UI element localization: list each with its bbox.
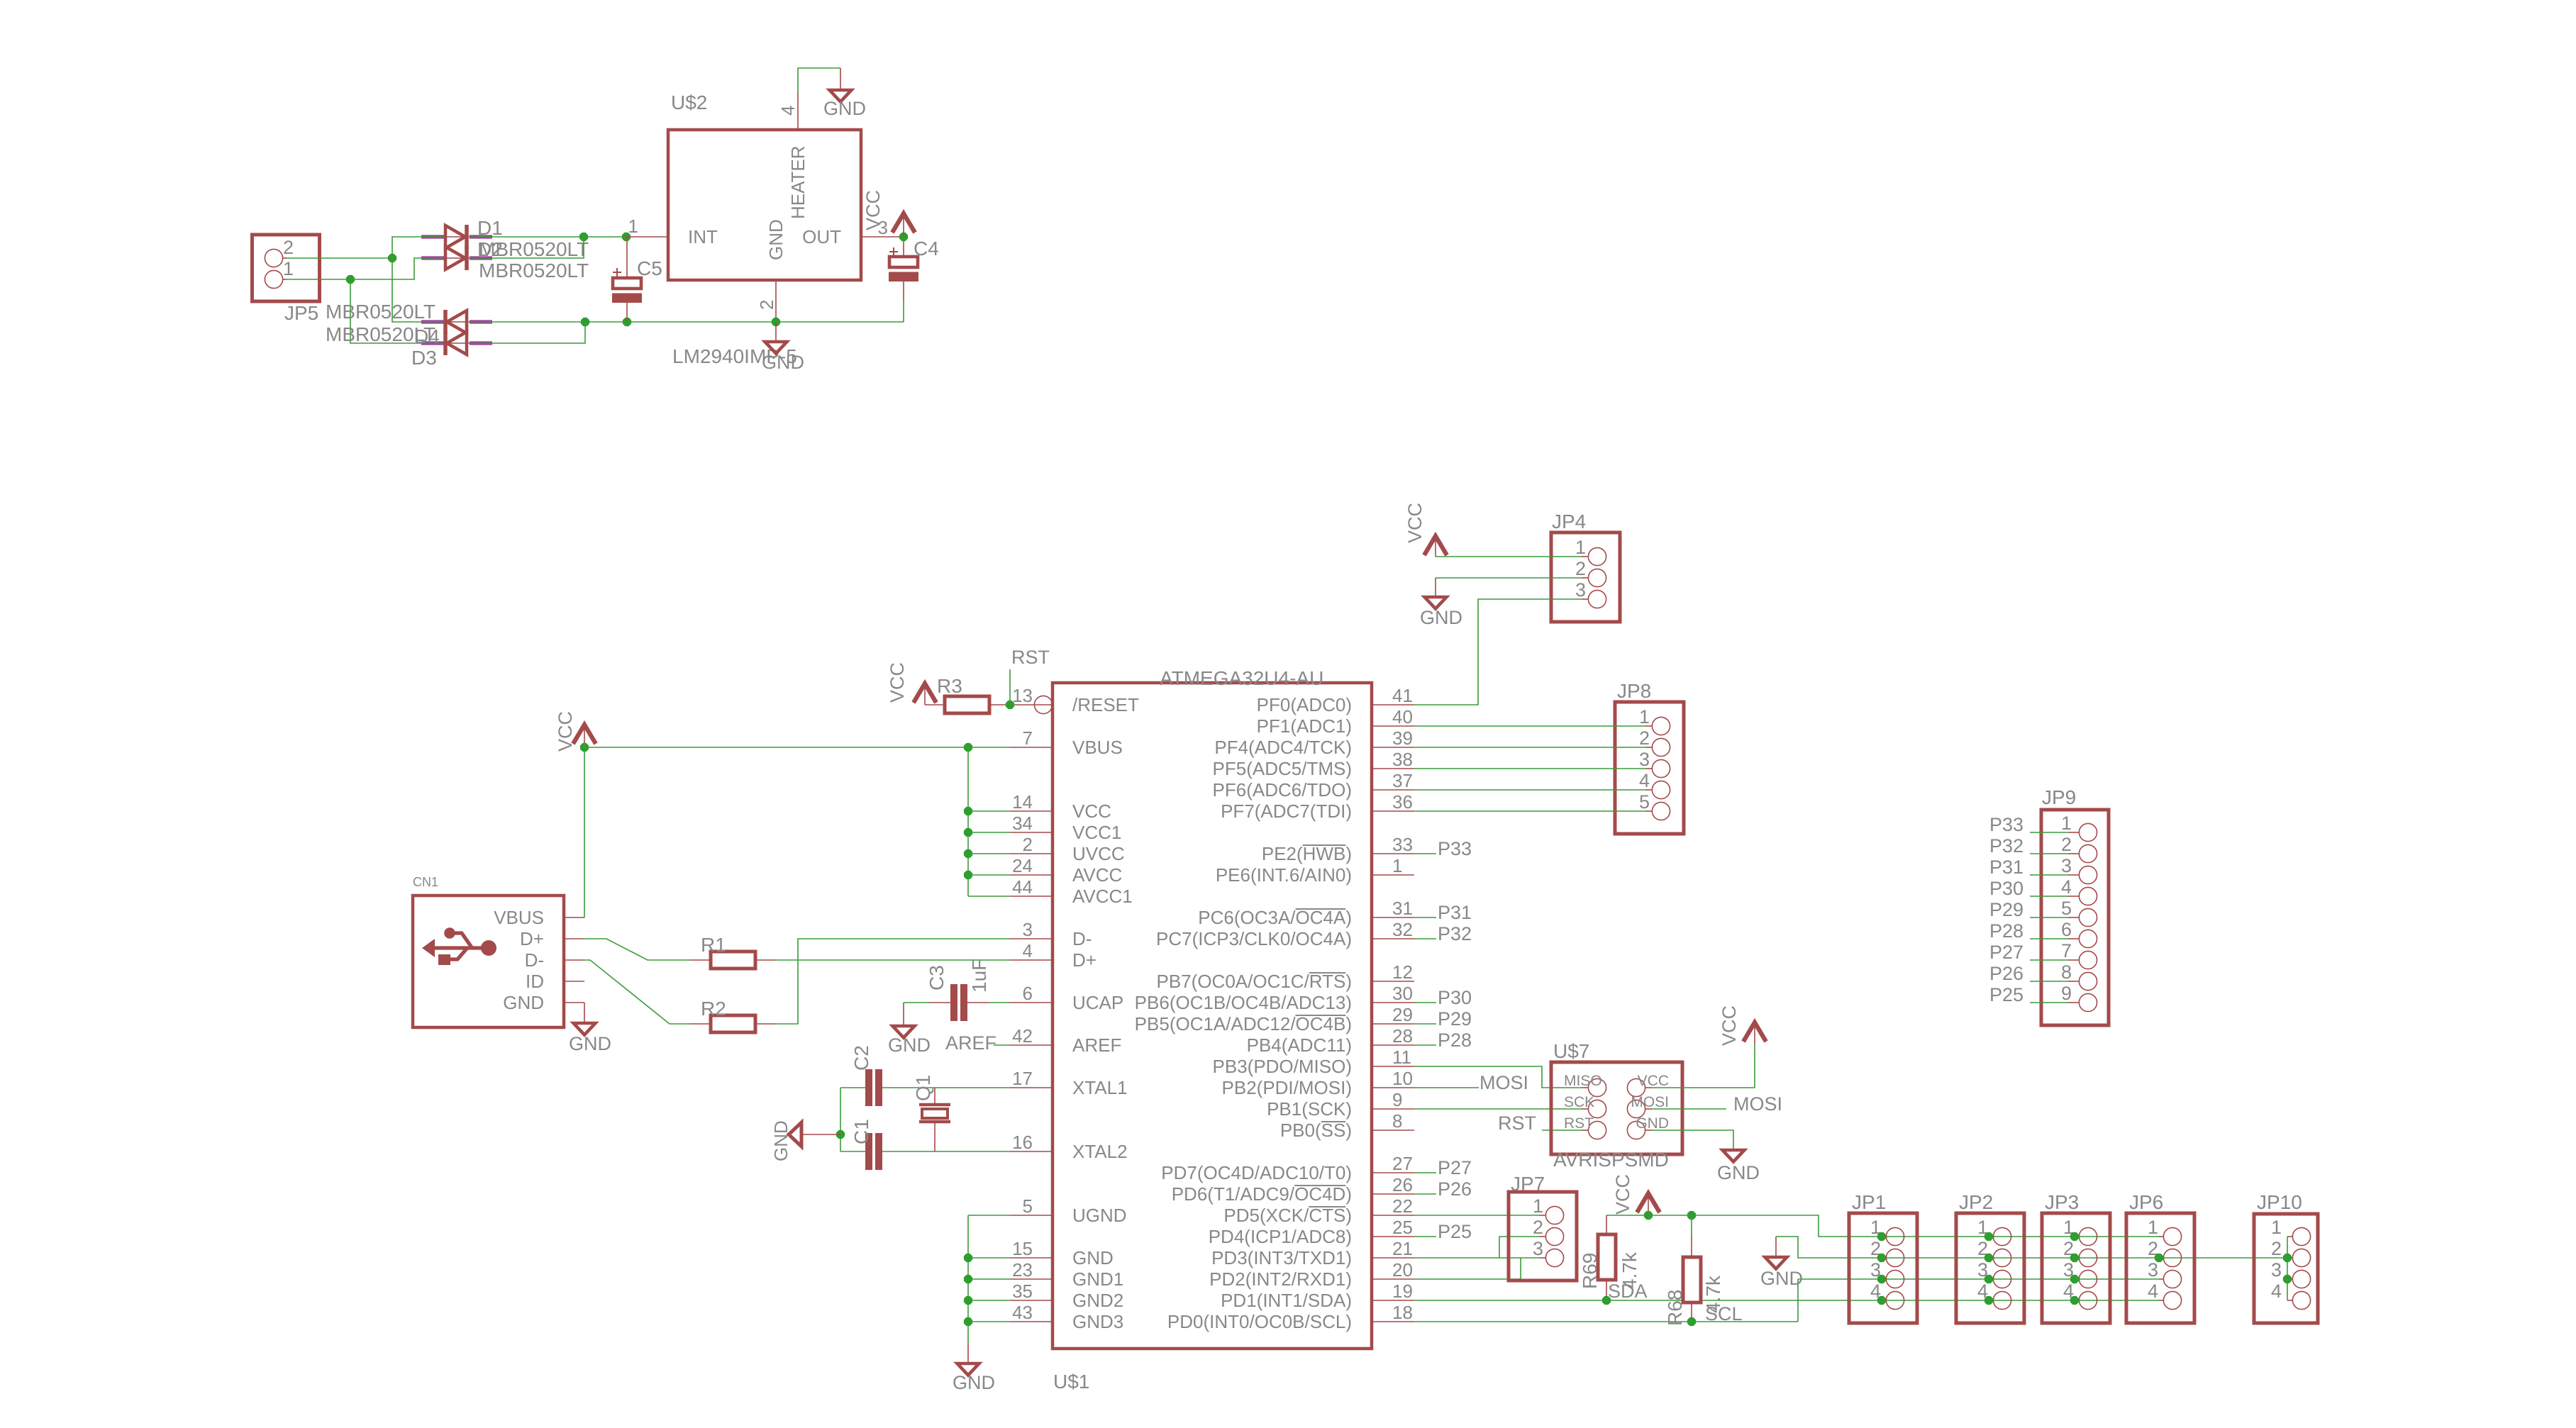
svg-text:AVCC: AVCC <box>1072 864 1122 886</box>
svg-text:GND: GND <box>1420 607 1462 628</box>
svg-text:VCC: VCC <box>1638 1073 1669 1089</box>
svg-text:4: 4 <box>1023 940 1033 961</box>
svg-text:VCC: VCC <box>862 190 884 230</box>
svg-text:XTAL1: XTAL1 <box>1072 1077 1128 1098</box>
net stub P33 <box>1414 853 1436 854</box>
wire P29 to JP9 <box>2030 917 2068 918</box>
svg-text:6: 6 <box>1023 983 1033 1004</box>
crystal Q1 <box>934 1088 936 1105</box>
svg-text:UCAP: UCAP <box>1072 992 1123 1013</box>
svg-text:36: 36 <box>1392 791 1413 813</box>
wire CN1 GND down <box>584 1003 585 1023</box>
wire D- to R2 <box>584 960 690 1024</box>
svg-text:P28: P28 <box>1438 1030 1472 1051</box>
node dot JP10.3 <box>2283 1275 2292 1283</box>
svg-text:PD7(OC4D/ADC10/T0): PD7(OC4D/ADC10/T0) <box>1161 1162 1352 1183</box>
svg-text:MISO: MISO <box>1564 1073 1602 1089</box>
svg-text:MBR0520LT: MBR0520LT <box>326 301 435 323</box>
resistor R2 <box>690 1023 711 1025</box>
wire VCC bus to pin <box>968 853 1010 854</box>
svg-text:U$7: U$7 <box>1553 1040 1589 1062</box>
svg-text:1: 1 <box>2271 1217 2282 1238</box>
svg-text:JP8: JP8 <box>1617 680 1651 702</box>
U$7 pin VCC <box>1627 1078 1645 1096</box>
svg-text:17: 17 <box>1012 1068 1033 1089</box>
svg-text:MOSI: MOSI <box>1631 1094 1669 1110</box>
svg-text:3: 3 <box>1533 1238 1543 1259</box>
wire JP7.2 jog <box>1499 1237 1539 1258</box>
svg-text:9: 9 <box>1392 1089 1402 1110</box>
svg-text:3: 3 <box>1023 919 1033 940</box>
U$1 pin 17 XTAL1 <box>1010 1087 1053 1088</box>
svg-text:UVCC: UVCC <box>1072 843 1125 864</box>
net label MOSI (U$7 right) <box>1652 1108 1726 1110</box>
U$1 pin 16 XTAL2 <box>1010 1151 1053 1152</box>
wire MISO route <box>1414 1066 1582 1088</box>
svg-text:C4: C4 <box>914 238 939 260</box>
svg-text:MBR0520LT: MBR0520LT <box>479 238 589 260</box>
U$1 pin 35 GND2 <box>1010 1300 1053 1301</box>
svg-text:27: 27 <box>1392 1153 1413 1174</box>
svg-text:SCL: SCL <box>1705 1303 1743 1324</box>
wire junction to D2 anode <box>350 258 444 279</box>
node junction JP5.2 <box>388 254 396 262</box>
svg-text:D+: D+ <box>1072 949 1097 971</box>
svg-text:40: 40 <box>1392 706 1413 727</box>
svg-text:GND: GND <box>569 1033 611 1054</box>
svg-text:32: 32 <box>1392 919 1413 940</box>
net stub P28 <box>1414 1044 1436 1046</box>
net stub P30 <box>1414 1002 1436 1003</box>
node dot JP10.2 <box>2283 1254 2292 1262</box>
svg-text:41: 41 <box>1392 685 1413 706</box>
svg-text:PB0(SS): PB0(SS) <box>1280 1120 1352 1141</box>
U$1 pin 26 PD6(T1/ADC9/OC4D) <box>1372 1193 1414 1195</box>
svg-text:RST: RST <box>1498 1112 1536 1134</box>
node dot JP3 <box>2070 1254 2079 1262</box>
node dot JP3 <box>2070 1232 2079 1241</box>
svg-text:22: 22 <box>1392 1195 1413 1217</box>
U$1 pin 13 /RESET <box>1035 704 1053 705</box>
svg-text:XTAL2: XTAL2 <box>1072 1141 1128 1162</box>
node dot VCC bus <box>964 871 972 879</box>
U$1 pin 38 PF5(ADC5/TMS) <box>1372 768 1414 769</box>
svg-text:P25: P25 <box>1989 984 2023 1005</box>
svg-text:R69: R69 <box>1579 1253 1601 1289</box>
svg-text:P33: P33 <box>1438 838 1472 859</box>
svg-text:JP5: JP5 <box>284 302 318 324</box>
wire VCC bus to pin <box>968 874 1010 876</box>
svg-text:3: 3 <box>2061 855 2072 876</box>
svg-text:VCC: VCC <box>1404 503 1426 543</box>
C5 plus sign <box>613 272 621 273</box>
wire P33 to JP9 <box>2030 832 2068 833</box>
ground GND at JP rail <box>1775 1237 1777 1257</box>
svg-text:1: 1 <box>2061 813 2072 834</box>
svg-text:PF1(ADC1): PF1(ADC1) <box>1257 715 1352 737</box>
node dot GND bus <box>964 1296 972 1305</box>
svg-text:P29: P29 <box>1438 1008 1472 1030</box>
svg-text:P30: P30 <box>1989 878 2023 899</box>
wire C3 to IC pin6 <box>989 1002 1010 1003</box>
U$1 pin 30 PB6(OC1B/OC4B/ADC13) <box>1372 1002 1414 1003</box>
svg-text:JP10: JP10 <box>2257 1191 2302 1213</box>
U$1 pin 22 PD5(XCK/CTS) <box>1372 1215 1414 1216</box>
node dot VCC sym <box>1644 1211 1653 1220</box>
svg-text:/RESET: /RESET <box>1072 694 1139 715</box>
U$1 pin 23 GND1 <box>1010 1278 1053 1280</box>
capacitor C4 (polarized) <box>903 237 904 257</box>
net label MOSI (pin10) <box>1414 1087 1479 1088</box>
power VCC at R3 <box>914 684 936 703</box>
node dot R68-SCL <box>1687 1317 1696 1326</box>
wire U$7 GND <box>1652 1130 1733 1150</box>
svg-text:PD5(XCK/CTS): PD5(XCK/CTS) <box>1223 1205 1352 1226</box>
svg-text:5: 5 <box>1639 791 1650 813</box>
svg-text:P27: P27 <box>1438 1157 1472 1178</box>
wire JP10 vertical <box>2287 1237 2288 1300</box>
U$1 pin 7 VBUS <box>1010 747 1053 748</box>
wire IC to JP8 pin 5 <box>1414 810 1645 812</box>
U$1 pin 11 PB3(PDO/MISO) <box>1372 1066 1414 1067</box>
node dot U$2 pin3 <box>899 233 908 241</box>
svg-text:VCC: VCC <box>1072 801 1111 822</box>
overline RTS <box>1309 972 1346 974</box>
power VCC right of U$7 <box>1743 1022 1766 1042</box>
svg-text:19: 19 <box>1392 1281 1413 1302</box>
wire VCC rail <box>1606 1215 2159 1237</box>
svg-text:1: 1 <box>1533 1195 1543 1217</box>
wire P31 to JP9 <box>2030 874 2068 876</box>
svg-text:GND: GND <box>953 1372 995 1393</box>
wire IC to JP8 pin 3 <box>1414 768 1645 769</box>
wire U$2 pin2 down <box>775 322 777 342</box>
connector JP1 <box>1849 1213 1917 1323</box>
wire GND rail <box>1776 1237 2287 1258</box>
U$1 pin 27 PD7(OC4D/ADC10/T0) <box>1372 1172 1414 1173</box>
node dot GND bus <box>964 1254 972 1262</box>
connector JP6 <box>2126 1213 2194 1323</box>
node dot JP3 <box>2070 1275 2079 1283</box>
wire IC to JP8 pin 2 <box>1414 747 1645 748</box>
wire junction up to D1 anode <box>392 237 444 258</box>
wire JP5.2 to junction <box>287 257 392 259</box>
svg-text:1: 1 <box>2148 1217 2158 1238</box>
svg-text:P28: P28 <box>1989 920 2023 942</box>
node dot JP6 <box>2155 1254 2163 1262</box>
connector JP2 <box>1956 1213 2024 1323</box>
svg-text:JP3: JP3 <box>2045 1191 2079 1213</box>
connector JP7 <box>1509 1192 1577 1281</box>
svg-text:JP1: JP1 <box>1852 1191 1886 1213</box>
wire C1C2 left vertical <box>840 1088 841 1151</box>
inversion circle at /RESET <box>1034 696 1052 713</box>
capacitor C3 <box>950 984 957 1021</box>
svg-text:R3: R3 <box>937 675 962 697</box>
overline OC4A <box>1296 908 1346 910</box>
svg-text:1uF: 1uF <box>968 959 990 993</box>
svg-text:38: 38 <box>1392 749 1413 770</box>
connector JP8 <box>1615 702 1684 834</box>
net stub P26 <box>1414 1193 1436 1195</box>
svg-text:D+: D+ <box>520 928 544 949</box>
svg-text:PF6(ADC6/TDO): PF6(ADC6/TDO) <box>1213 779 1352 801</box>
wire GND rail lower <box>492 321 904 323</box>
net stub P32 <box>1414 938 1436 939</box>
svg-text:39: 39 <box>1392 727 1413 749</box>
svg-text:VBUS: VBUS <box>1072 737 1123 758</box>
U$1 pin 3 D- <box>1010 938 1053 939</box>
wire P27 to JP9 <box>2030 959 2068 961</box>
svg-text:PF4(ADC4/TCK): PF4(ADC4/TCK) <box>1214 737 1352 758</box>
svg-text:12: 12 <box>1392 961 1413 983</box>
wire JP5.1 to junction <box>287 279 350 280</box>
svg-text:2: 2 <box>1533 1217 1543 1238</box>
U$1 pin 34 VCC1 <box>1010 832 1053 833</box>
wire UCAP to C3 <box>904 1002 929 1003</box>
U$1 pin 4 D+ <box>1010 959 1053 961</box>
svg-text:D-: D- <box>525 949 544 971</box>
U$1 pin 41 PF0(ADC0) <box>1372 704 1414 705</box>
svg-text:7: 7 <box>1023 727 1033 749</box>
overline OC4D <box>1294 1185 1345 1186</box>
svg-text:1: 1 <box>283 258 294 279</box>
svg-text:PB6(OC1B/OC4B/ADC13): PB6(OC1B/OC4B/ADC13) <box>1135 992 1352 1013</box>
node dot JP2 <box>1984 1254 1993 1262</box>
svg-text:16: 16 <box>1012 1132 1033 1153</box>
U$1 pin 29 PB5(OC1A/ADC12/OC4B) <box>1372 1023 1414 1025</box>
resistor R3 <box>925 704 945 705</box>
U$1 pin 5 UGND <box>1010 1215 1053 1216</box>
wire JP4.2 to GND <box>1436 577 1582 579</box>
wire P28 to JP9 <box>2030 938 2068 939</box>
U$2 pin 4 stub <box>797 92 799 130</box>
svg-text:30: 30 <box>1392 983 1413 1004</box>
U$1 pin 8 PB0(SS) <box>1372 1129 1414 1131</box>
U$1 pin 2 UVCC <box>1010 853 1053 854</box>
svg-text:VCC: VCC <box>555 711 576 752</box>
U$1 pin 12 PB7(OC0A/OC1C/RTS) <box>1372 981 1414 982</box>
USB icon <box>422 927 496 965</box>
svg-text:3: 3 <box>1639 749 1650 770</box>
svg-text:42: 42 <box>1012 1025 1033 1047</box>
U$1 pin 36 PF7(ADC7(TDI) <box>1372 810 1414 812</box>
node dot at 1365 <box>964 743 972 752</box>
svg-text:PF5(ADC5/TMS): PF5(ADC5/TMS) <box>1213 758 1352 779</box>
svg-text:C2: C2 <box>850 1045 872 1071</box>
node dot JP3 <box>2070 1296 2079 1305</box>
svg-text:GND1: GND1 <box>1072 1268 1123 1290</box>
svg-text:PD6(T1/ADC9/OC4D): PD6(T1/ADC9/OC4D) <box>1172 1183 1352 1205</box>
power VCC at rail <box>1637 1193 1660 1212</box>
U$7 pin SCK <box>1588 1100 1606 1117</box>
connector JP10 <box>2254 1214 2318 1323</box>
U$1 pin 25 PD4(ICP1/ADC8) <box>1372 1236 1414 1237</box>
U$7 pin MOSI <box>1627 1100 1645 1117</box>
ground GND at C3 <box>893 1026 915 1038</box>
svg-text:2: 2 <box>1575 558 1586 579</box>
node dot VCC-VBUS <box>580 743 589 752</box>
ground GND at U$2 pin2 <box>765 342 787 354</box>
svg-text:4: 4 <box>2271 1281 2282 1302</box>
node dot JP1 <box>1877 1296 1886 1305</box>
svg-text:7: 7 <box>2061 940 2072 961</box>
svg-text:GND: GND <box>1760 1268 1803 1289</box>
svg-text:9: 9 <box>2061 983 2072 1004</box>
svg-text:VCC1: VCC1 <box>1072 822 1121 843</box>
node dot GND bus <box>964 1275 972 1283</box>
svg-text:PC7(ICP3/CLK0/OC4A): PC7(ICP3/CLK0/OC4A) <box>1156 928 1352 949</box>
power VCC at U$2 OUT <box>903 213 904 237</box>
svg-text:PD2(INT2/RXD1): PD2(INT2/RXD1) <box>1209 1268 1352 1290</box>
wire IC20 jog <box>1414 1258 1521 1279</box>
ground GND at U$2 pin4 <box>830 90 852 102</box>
U$1 pin 18 PD0(INT0/OC0B/SCL) <box>1372 1321 1414 1322</box>
svg-text:D4: D4 <box>414 325 440 347</box>
svg-text:1: 1 <box>1639 706 1650 727</box>
svg-text:2: 2 <box>1023 834 1033 855</box>
regulator U$2 LM2940IMP-5 <box>668 130 861 280</box>
CN1 pin stubs <box>564 917 584 918</box>
svg-text:R1: R1 <box>701 934 726 956</box>
svg-text:GND: GND <box>1636 1115 1669 1132</box>
svg-text:GND3: GND3 <box>1072 1311 1123 1332</box>
wire SDA rail <box>1414 1300 2159 1301</box>
U$2 pin 2 stub <box>775 280 777 322</box>
svg-text:5: 5 <box>1023 1195 1033 1217</box>
svg-text:PD1(INT1/SDA): PD1(INT1/SDA) <box>1221 1290 1352 1311</box>
svg-text:GND: GND <box>1072 1247 1114 1268</box>
svg-text:INT: INT <box>688 226 718 247</box>
svg-text:8: 8 <box>2061 961 2072 983</box>
svg-text:VBUS: VBUS <box>494 907 544 928</box>
node dot D2 join <box>579 233 588 241</box>
svg-text:MOSI: MOSI <box>1479 1072 1528 1093</box>
wire D1 cathode to U$2 pin1 <box>492 236 627 238</box>
connector JP9 <box>2041 810 2109 1025</box>
U$2 pin 1 stub <box>626 236 668 238</box>
svg-text:35: 35 <box>1012 1281 1033 1302</box>
svg-text:R2: R2 <box>701 998 726 1020</box>
svg-text:11: 11 <box>1392 1047 1411 1068</box>
wire P26 to JP9 <box>2030 981 2068 982</box>
ground GND at JP4 <box>1425 597 1447 609</box>
svg-text:C3: C3 <box>926 965 948 991</box>
svg-text:JP7: JP7 <box>1511 1173 1545 1195</box>
power VCC at JP4 <box>1424 536 1447 555</box>
svg-text:AREF: AREF <box>1072 1034 1121 1056</box>
svg-text:PD0(INT0/OC0B/SCL): PD0(INT0/OC0B/SCL) <box>1167 1311 1352 1332</box>
U$1 pin 40 PF1(ADC1) <box>1372 725 1414 727</box>
svg-text:31: 31 <box>1392 898 1413 919</box>
svg-text:2: 2 <box>1639 727 1650 749</box>
U$7 pin MISO <box>1588 1078 1606 1096</box>
power VCC above CN1 <box>573 725 596 744</box>
wire VCC bus to pin <box>968 810 1010 812</box>
svg-text:P31: P31 <box>1438 902 1472 923</box>
wire D+ to R1 <box>584 939 690 960</box>
IC U$7 AVRISPSMD <box>1551 1062 1682 1154</box>
svg-text:AREF: AREF <box>945 1032 996 1054</box>
svg-text:PE6(INT.6/AIN0): PE6(INT.6/AIN0) <box>1216 864 1352 886</box>
svg-text:2: 2 <box>756 300 777 310</box>
svg-text:MOSI: MOSI <box>1733 1093 1782 1115</box>
wire UGND/GND bus <box>968 1215 1010 1216</box>
node dot R69-SDA <box>1602 1296 1611 1305</box>
U$7 pin RST <box>1588 1121 1606 1139</box>
svg-text:JP2: JP2 <box>1959 1191 1993 1213</box>
svg-text:R68: R68 <box>1664 1290 1686 1326</box>
wire IC to JP8 pin 4 <box>1414 789 1645 791</box>
U$1 pin 32 PC7(ICP3/CLK0/OC4A) <box>1372 938 1414 939</box>
node dot D3 join <box>581 318 589 326</box>
wire SCL top rail <box>1798 1278 2159 1280</box>
svg-text:VCC: VCC <box>1719 1005 1740 1046</box>
node dot RST <box>1006 701 1014 709</box>
wire IC21 to JP7.3 <box>1414 1257 1539 1259</box>
svg-text:VCC: VCC <box>1612 1174 1633 1215</box>
ground GND at U$1 <box>957 1363 979 1376</box>
svg-text:3: 3 <box>1575 579 1586 601</box>
overline CTS <box>1309 1206 1345 1207</box>
svg-text:P33: P33 <box>1989 814 2023 835</box>
svg-text:PB1(SCK): PB1(SCK) <box>1267 1098 1352 1120</box>
net stub P25 <box>1414 1236 1436 1237</box>
svg-text:34: 34 <box>1012 813 1033 834</box>
svg-text:OUT: OUT <box>802 226 841 247</box>
svg-text:GND: GND <box>765 219 787 260</box>
wire R2 to IC D- <box>776 939 1010 1024</box>
wire XTAL2 row <box>840 1151 865 1152</box>
wire VCC bus to pin <box>968 832 1010 833</box>
ground GND at CN1 <box>574 1023 596 1035</box>
wire U$7 VCC <box>1652 1044 1755 1088</box>
svg-text:PD4(ICP1/ADC8): PD4(ICP1/ADC8) <box>1209 1226 1352 1247</box>
svg-text:GND2: GND2 <box>1072 1290 1123 1311</box>
overline HWB <box>1303 844 1346 846</box>
resistor R1 <box>690 959 711 961</box>
svg-text:8: 8 <box>1392 1110 1402 1132</box>
svg-text:23: 23 <box>1012 1259 1033 1281</box>
svg-text:PD3(INT3/TXD1): PD3(INT3/TXD1) <box>1211 1247 1352 1268</box>
U$1 pin 14 VCC <box>1010 810 1053 812</box>
svg-text:D3: D3 <box>411 347 437 369</box>
svg-text:D-: D- <box>1072 928 1092 949</box>
wire SCK <box>1414 1108 1582 1110</box>
svg-text:1: 1 <box>1392 855 1402 876</box>
svg-text:P27: P27 <box>1989 942 2023 963</box>
svg-text:Q1: Q1 <box>912 1075 934 1101</box>
svg-text:4: 4 <box>777 106 799 116</box>
U$1 pin 24 AVCC <box>1010 874 1053 876</box>
node dot GND xtal <box>836 1130 845 1139</box>
svg-text:25: 25 <box>1392 1217 1413 1238</box>
ground GND at U$7 <box>1723 1150 1745 1162</box>
wire P25 to JP9 <box>2030 1002 2068 1003</box>
U$1 pin 6 UCAP <box>1010 1002 1053 1003</box>
svg-text:GND: GND <box>888 1034 931 1056</box>
svg-text:PB3(PDO/MISO): PB3(PDO/MISO) <box>1213 1056 1352 1077</box>
svg-text:PB4(ADC11): PB4(ADC11) <box>1247 1034 1352 1056</box>
wire VCC bus to pin <box>968 896 1010 897</box>
svg-text:24: 24 <box>1012 855 1033 876</box>
svg-text:HEATER: HEATER <box>787 145 809 219</box>
resistor R68 <box>1691 1215 1692 1236</box>
wire P30 to JP9 <box>2030 896 2068 897</box>
node dot JP1 <box>1877 1254 1886 1262</box>
node junction JP5.1 <box>346 275 355 284</box>
svg-text:PC6(OC3A/OC4A): PC6(OC3A/OC4A) <box>1198 907 1352 928</box>
